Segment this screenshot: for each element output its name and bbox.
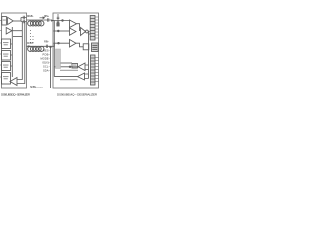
svg-text:SCL–: SCL– — [43, 65, 51, 69]
wire RIN- — [54, 30, 70, 32]
wire D1 to deser core — [77, 24, 80, 31]
op-amp T3 back-channel receiver — [10, 78, 17, 86]
capacitor C4 — [48, 18, 49, 21]
op-amp D1 equalizer — [70, 20, 77, 28]
register stack box bottom — [91, 55, 96, 85]
svg-text:RES–: RES– — [43, 49, 51, 53]
capacitor network DES input — [57, 14, 60, 27]
wire arrow into deserializer — [52, 20, 54, 21]
box S5 registers — [2, 73, 11, 85]
svg-text:DOUT+: DOUT+ — [27, 14, 34, 18]
box S3 timing — [2, 51, 11, 61]
svg-text:PDB–: PDB– — [43, 53, 51, 57]
wire bus link — [13, 36, 22, 38]
wire RIN+ — [53, 20, 70, 22]
wire mid link — [61, 62, 73, 64]
node ctrl bus — [50, 47, 52, 88]
wire CDR input — [53, 43, 70, 46]
wire arrow back channel — [28, 46, 30, 47]
wire back channel — [27, 45, 54, 47]
svg-text:RIN+: RIN+ — [44, 14, 49, 18]
op-amp D6 back-channel driver — [78, 73, 85, 80]
wire D3 out — [76, 43, 84, 47]
op-amp D4 output stage — [81, 28, 86, 36]
wire back pair lower — [60, 70, 78, 80]
svg-text:SDA–: SDA– — [43, 69, 51, 73]
svg-text:NOTE — ——: NOTE — —— — [30, 85, 43, 89]
op-amp T2 driver — [6, 28, 12, 35]
cable coil forward — [28, 21, 44, 26]
wire DES inner edge — [53, 21, 55, 77]
pin stubs top right — [95, 17, 99, 38]
wire internal bus — [11, 27, 13, 77]
svg-text:DOUT-: DOUT- — [27, 41, 34, 45]
capacitor C2 — [21, 20, 27, 23]
capacitor C1 — [21, 16, 27, 19]
op-amp T1 driver — [8, 17, 14, 24]
wire vertical pair to T3 — [17, 22, 22, 80]
wire vertical cap join — [20, 18, 22, 22]
register stack box top — [90, 16, 95, 41]
deserializer outer box — [53, 13, 99, 88]
label arrow — [40, 17, 45, 19]
bus gray band — [56, 49, 61, 69]
cable dashes — [30, 30, 32, 44]
box S2 PLL — [2, 39, 11, 49]
wire T1 output — [13, 20, 21, 22]
serializer outer box — [2, 13, 27, 88]
wire box stubs — [11, 44, 13, 66]
pin stubs serializer left — [0, 21, 2, 78]
box oscillator — [92, 43, 99, 52]
svg-text:RIN-: RIN- — [44, 40, 49, 44]
op-amp D3 CDR amp — [70, 40, 77, 48]
wire D4 to register — [88, 31, 89, 33]
svg-text:DS90UB914Q – DESERIALIZER: DS90UB914Q – DESERIALIZER — [57, 93, 98, 97]
wire T2 output — [12, 30, 22, 32]
box S4 control — [2, 62, 11, 71]
svg-text:MODE–: MODE– — [41, 57, 51, 61]
wire vertical distribution — [88, 32, 90, 79]
op-amp D2 — [70, 28, 77, 35]
wire back channel out — [54, 66, 78, 68]
op-amp D5 back-channel driver — [78, 63, 85, 71]
pin stubs bottom right — [95, 58, 99, 82]
cable coil back — [28, 46, 44, 51]
svg-text:DS90UB913Q – SERIALIZER: DS90UB913Q – SERIALIZER — [1, 93, 31, 97]
capacitor C3 — [46, 45, 47, 48]
wire forward channel — [27, 19, 52, 21]
box S1 (serializer input block) — [2, 17, 7, 26]
svg-text:ID[X]–: ID[X]– — [43, 61, 51, 65]
box divider — [83, 44, 89, 50]
box text smudges — [3, 20, 77, 80]
node PLL bubble — [86, 30, 89, 33]
